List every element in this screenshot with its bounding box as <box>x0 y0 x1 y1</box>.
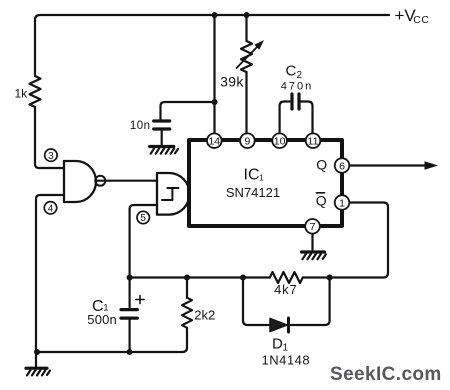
ground bottom-left <box>26 368 50 375</box>
pin 6 circle <box>335 158 350 173</box>
wire 39k to pin 9 <box>245 72 247 133</box>
wire VCC to 39k <box>245 15 247 41</box>
pin 9 circle <box>240 133 255 148</box>
wire to 10n cap <box>161 102 215 120</box>
svg-text:4k7: 4k7 <box>274 282 297 297</box>
svg-text:1N4148: 1N4148 <box>262 353 311 368</box>
svg-text:4: 4 <box>48 203 54 214</box>
node junction dot 10n tap <box>212 99 218 105</box>
schmitt gate U1b <box>157 173 190 215</box>
ground below pin 7 <box>302 252 326 259</box>
svg-text:1: 1 <box>259 173 264 183</box>
svg-text:1: 1 <box>339 197 345 209</box>
node junction dot diode right <box>327 275 333 281</box>
wire 4k7 to right <box>303 276 330 278</box>
svg-text:C: C <box>286 63 297 80</box>
wire gate pin 4 down to ground rail <box>36 195 64 367</box>
svg-text:10: 10 <box>274 135 286 147</box>
svg-text:D: D <box>272 336 283 353</box>
node junction dot C1 bottom <box>127 349 133 355</box>
pin 10 circle <box>272 133 287 148</box>
IC1 box SN74121 <box>189 140 342 226</box>
svg-text:5: 5 <box>140 213 146 224</box>
svg-text:7: 7 <box>310 221 316 233</box>
resistor 4k7 <box>270 272 303 283</box>
pin 1 circle <box>335 195 350 210</box>
wire bottom rail <box>36 351 130 353</box>
svg-text:Q: Q <box>316 193 327 209</box>
capacitor C1 500n <box>121 278 144 352</box>
node junction dot VCC right <box>244 12 250 18</box>
wire pin 5 input <box>130 205 157 278</box>
svg-text:2k2: 2k2 <box>194 308 215 323</box>
svg-text:CC: CC <box>413 14 429 26</box>
wire top VCC rail <box>35 15 389 76</box>
wire Q-bar pin 1 to feedback <box>330 203 388 278</box>
svg-text:9: 9 <box>244 135 250 147</box>
svg-text:SN74121: SN74121 <box>226 185 280 200</box>
Q-bar overline <box>317 192 325 194</box>
ground below 10n <box>150 147 178 154</box>
node junction dot diode left <box>240 275 246 281</box>
wire NAND output to schmitt gate <box>96 180 158 182</box>
svg-text:SeekIC.com: SeekIC.com <box>330 364 442 385</box>
pin 5 circle <box>137 211 149 223</box>
NAND gate U1a <box>64 161 105 202</box>
svg-text:IC: IC <box>244 167 260 184</box>
svg-text:39k: 39k <box>220 73 244 89</box>
svg-text:470n: 470n <box>281 81 313 93</box>
wire pin 7 to ground <box>311 234 313 251</box>
wire Q output arrow <box>350 161 439 169</box>
wire VCC to pin 14 <box>213 15 215 133</box>
pin 14 circle <box>207 133 222 148</box>
resistor 2k2 <box>130 278 192 353</box>
node junction dot C1 top <box>127 275 133 281</box>
wire C2 left leg <box>280 102 291 134</box>
wire 1k to gate pin 3 <box>35 107 64 168</box>
diode D1 1N4148 <box>243 278 330 333</box>
pin 3 circle <box>45 149 57 161</box>
svg-text:2: 2 <box>297 70 303 81</box>
capacitor C2 470n <box>292 94 299 109</box>
svg-text:10n: 10n <box>130 120 151 132</box>
svg-text:500n: 500n <box>87 312 117 327</box>
svg-text:Q: Q <box>316 156 327 172</box>
svg-text:11: 11 <box>308 135 319 147</box>
wire mid feedback rail <box>130 276 270 278</box>
svg-text:3: 3 <box>48 151 54 162</box>
pin 4 circle <box>44 202 56 214</box>
wire C2 right leg <box>301 102 313 134</box>
resistor R 1k <box>30 76 41 107</box>
pin 11 circle <box>306 133 321 148</box>
pin 7 circle <box>305 219 320 234</box>
resistor 39k variable <box>237 40 265 72</box>
node junction dot VCC left <box>212 12 218 18</box>
svg-text:14: 14 <box>208 135 220 147</box>
svg-text:1k: 1k <box>15 86 29 100</box>
node junction dot 2k2 top <box>184 275 190 281</box>
capacitor 10n <box>154 121 170 145</box>
node junction dot bottom-left <box>34 349 40 355</box>
svg-text:6: 6 <box>339 160 345 172</box>
